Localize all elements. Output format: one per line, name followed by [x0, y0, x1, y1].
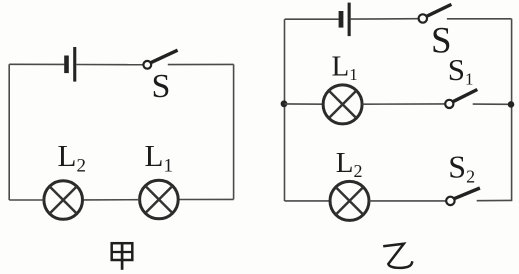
wire: left circuit switch to top-right corner [168, 63, 234, 65]
wire: L1 branch lamp to switch S1 [362, 103, 445, 105]
svg-text:S: S [152, 68, 171, 105]
lamp L2 (right circuit) [330, 181, 369, 220]
wire: right circuit switch to top-right corner [447, 18, 512, 20]
switch S (left circuit, open) [143, 50, 177, 69]
wire: left circuit top-left segment [9, 63, 64, 65]
wire: left circuit bottom-right segment [179, 198, 234, 200]
wire: left circuit left vertical [8, 64, 10, 200]
wire: right circuit battery to switch S [351, 18, 419, 20]
lamp L1 (left circuit) [140, 180, 179, 219]
wire: left circuit between lamps [84, 199, 140, 201]
switch S2 (L2 branch, open) [446, 188, 480, 205]
junction node (right vertical / L1 branch) [508, 101, 515, 108]
wire: L1 branch switch to right vertical [473, 103, 512, 105]
wire: L2 branch lamp to switch S2 [369, 200, 446, 202]
battery B1 (left circuit cell) [64, 47, 76, 82]
wire: left circuit battery to switch S [76, 64, 143, 66]
wire: L1 branch left segment [285, 103, 324, 105]
switch S (right circuit main switch, open) [419, 4, 452, 22]
caption jia (left figure name) [111, 242, 134, 269]
caption yi (right figure name) [383, 244, 412, 268]
wire: left circuit right vertical [233, 64, 235, 199]
wire: L2 branch left segment [285, 200, 331, 202]
wire: right circuit left vertical [284, 19, 286, 201]
wire: right circuit right vertical [511, 19, 513, 201]
junction node (left vertical / L1 branch) [281, 100, 288, 107]
switch S1 (L1 branch, open) [445, 90, 477, 109]
battery B2 (right circuit cell) [339, 3, 351, 37]
wire: L2 branch switch to bottom-right corner [477, 199, 513, 201]
wire: right circuit top-left segment [285, 18, 339, 20]
wire: left circuit bottom-left segment [9, 199, 44, 201]
lamp L2 (left circuit) [44, 181, 83, 220]
lamp L1 (right circuit) [323, 85, 362, 124]
